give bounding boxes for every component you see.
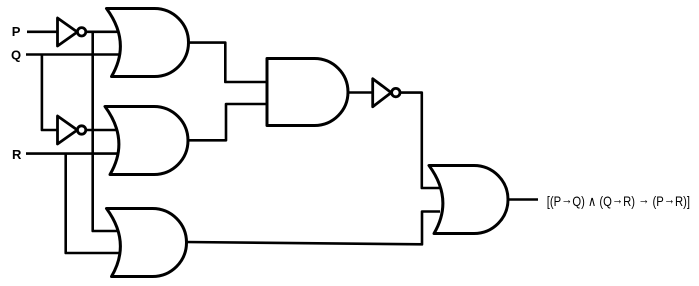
svg-text:Q: Q	[11, 48, 21, 63]
wire R drop to bottom OR gate	[66, 154, 119, 253]
svg-text:[(P→Q) ∧ (Q→R) → (P→R)]: [(P→Q) ∧ (Q→R) → (P→R)]	[547, 191, 690, 209]
svg-text:P: P	[12, 24, 21, 39]
AND gate ((P implies Q) AND (Q implies R))	[267, 59, 348, 126]
svg-text:R: R	[12, 147, 22, 162]
wire NOT output down to final OR top input	[396, 93, 440, 188]
OR gate (P implies Q): inputs NOT-P and Q	[107, 9, 189, 77]
wire final OR output	[507, 198, 538, 201]
wire NOT-Q output to middle OR gate	[82, 129, 119, 132]
inverter (NOT gate) after AND	[373, 79, 400, 107]
OR gate (P implies R): inputs NOT-P and R	[107, 209, 187, 277]
wire AND output to inverter	[347, 91, 373, 94]
final OR gate (output)	[429, 166, 508, 234]
wire NOT-P drop to bottom OR gate	[93, 32, 119, 231]
wire bottom OR output to final OR bottom input	[185, 212, 440, 245]
wire middle OR output to AND gate input	[187, 104, 268, 140]
inverter (NOT gate) on P	[58, 18, 86, 46]
wire NOT-P output to top OR gate	[82, 30, 119, 33]
wire Q vertical drop to lower inverter	[42, 55, 58, 131]
wire Q input to top OR gate	[26, 53, 119, 56]
wire R input to middle OR gate	[26, 152, 119, 155]
inverter (NOT gate) on Q	[58, 116, 86, 144]
OR gate (Q implies R): inputs NOT-Q and R	[105, 107, 188, 175]
wire P input to inverter	[27, 30, 58, 33]
wire top OR output to AND gate input	[187, 43, 268, 82]
